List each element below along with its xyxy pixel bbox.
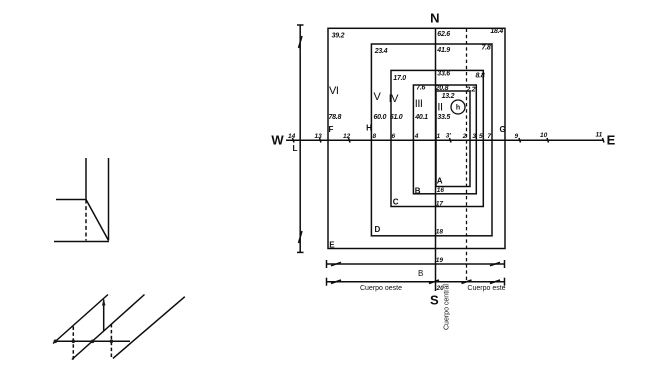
svg-text:40.1: 40.1 — [414, 114, 428, 121]
left vertical dimension line — [297, 25, 304, 252]
svg-text:19: 19 — [436, 257, 444, 264]
svg-text:10: 10 — [540, 132, 548, 139]
svg-text:7: 7 — [487, 133, 491, 140]
svg-text:33.5: 33.5 — [437, 114, 450, 121]
svg-text:Cuerpo oeste: Cuerpo oeste — [360, 285, 402, 292]
detail drawing 2: height arrow segment — [103, 300, 105, 331]
arrowhead of height arrow in drawing 2 — [102, 299, 106, 306]
svg-text:A: A — [437, 177, 443, 186]
svg-text:6: 6 — [392, 133, 396, 140]
svg-text:5: 5 — [479, 133, 483, 140]
svg-text:60.0: 60.0 — [374, 114, 387, 121]
dashed axis of cuerpo este — [466, 29, 468, 282]
svg-text:N: N — [430, 11, 439, 26]
svg-text:14: 14 — [288, 133, 296, 140]
svg-text:VI: VI — [329, 85, 339, 97]
svg-text:1: 1 — [437, 133, 441, 140]
svg-text:W: W — [271, 133, 284, 148]
svg-text:h: h — [456, 105, 460, 112]
svg-text:13.2: 13.2 — [442, 93, 455, 100]
stage VI rectangle — [328, 28, 505, 248]
detail drawing 2: baseline — [54, 340, 130, 342]
svg-text:7.6: 7.6 — [416, 85, 425, 92]
detail drawing 1: wall corner profile, vertical line left — [85, 158, 87, 200]
detail drawing 1: lower horizontal base — [54, 241, 109, 243]
detail drawing 1: upper horizontal ledge — [56, 199, 86, 201]
svg-text:17.0: 17.0 — [393, 75, 406, 82]
svg-text:33.6: 33.6 — [437, 70, 450, 77]
svg-text:D: D — [375, 225, 381, 234]
stage II rectangle — [436, 91, 470, 187]
svg-text:41.9: 41.9 — [436, 47, 450, 54]
svg-text:7.8: 7.8 — [482, 45, 491, 52]
svg-text:V: V — [374, 91, 382, 103]
svg-text:4: 4 — [414, 133, 419, 140]
svg-text:18.4: 18.4 — [490, 28, 503, 35]
svg-text:8: 8 — [373, 133, 377, 140]
svg-text:51.0: 51.0 — [390, 114, 403, 121]
svg-text:9: 9 — [515, 133, 519, 140]
svg-text:3': 3' — [446, 132, 452, 139]
stage III rectangle — [413, 85, 476, 194]
svg-text:H: H — [366, 124, 372, 133]
detail drawing 2: dashed drop line 2 — [110, 324, 112, 359]
svg-text:IV: IV — [389, 93, 400, 105]
svg-text:F: F — [329, 125, 334, 134]
svg-text:G: G — [500, 125, 506, 134]
bottom dimension line B — [327, 260, 505, 268]
svg-text:3: 3 — [472, 133, 476, 140]
svg-text:78.8: 78.8 — [329, 114, 342, 121]
svg-text:2: 2 — [462, 133, 467, 140]
detail drawing 2: talud slope 3 — [113, 297, 185, 359]
svg-text:12: 12 — [343, 133, 351, 140]
detail drawing 2: talud slope 2 — [72, 295, 145, 360]
svg-text:L: L — [293, 144, 298, 153]
west-east axis line — [286, 139, 604, 141]
north-south centre line — [435, 28, 437, 291]
stage V rectangle — [371, 44, 492, 236]
bottom dimension line cuerpos — [327, 278, 505, 286]
svg-text:E: E — [607, 133, 616, 148]
baseline dots drawing 2 — [54, 340, 58, 344]
svg-text:2.2: 2.2 — [465, 86, 475, 93]
axis tick marks — [293, 138, 605, 143]
svg-text:16: 16 — [437, 187, 445, 194]
svg-text:S: S — [430, 293, 439, 308]
svg-text:11: 11 — [596, 132, 603, 139]
stage IV rectangle — [391, 70, 483, 206]
svg-text:B: B — [415, 186, 421, 195]
svg-text:II: II — [437, 102, 443, 114]
svg-text:13: 13 — [315, 133, 323, 140]
detail drawing 2: dashed drop line 1 — [72, 327, 74, 360]
svg-text:C: C — [393, 197, 399, 206]
detail drawing 1: sloped talud line — [86, 200, 109, 241]
detail drawing 1: hidden edge (dashed) — [85, 200, 87, 241]
svg-text:B: B — [418, 269, 423, 278]
svg-text:8.8: 8.8 — [476, 73, 485, 80]
svg-text:23.4: 23.4 — [374, 48, 388, 55]
svg-text:Cuerpo central: Cuerpo central — [444, 284, 451, 330]
detail drawing 2: talud slope 1 — [53, 295, 108, 344]
svg-text:Cuerpo este: Cuerpo este — [467, 285, 505, 292]
svg-text:39.2: 39.2 — [332, 32, 345, 39]
svg-text:III: III — [415, 98, 423, 110]
svg-text:E: E — [329, 240, 335, 249]
detail drawing 1: vertical line right — [108, 158, 110, 241]
circle h (hallazgo) — [451, 100, 465, 114]
svg-text:18: 18 — [436, 228, 444, 235]
svg-text:17: 17 — [436, 201, 444, 208]
svg-text:20.8: 20.8 — [435, 85, 449, 92]
svg-text:62.6: 62.6 — [437, 31, 450, 38]
